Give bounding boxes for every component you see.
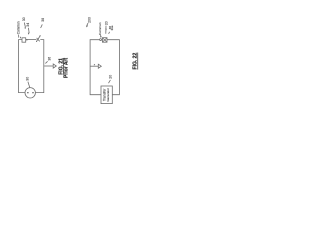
svg-text:20: 20 <box>104 21 108 25</box>
svg-text:Common: Common <box>98 22 102 35</box>
svg-text:30: 30 <box>26 77 30 81</box>
svg-text:30: 30 <box>22 17 26 21</box>
svg-text:Generator: Generator <box>106 88 110 102</box>
svg-text:Common: Common <box>16 21 20 34</box>
svg-text:200: 200 <box>88 17 92 23</box>
svg-text:Prior Art: Prior Art <box>64 58 70 78</box>
svg-text:36: 36 <box>47 57 51 61</box>
svg-text:38: 38 <box>41 18 45 22</box>
svg-text:34: 34 <box>26 23 30 27</box>
svg-text:20: 20 <box>109 75 113 79</box>
svg-text:line: line <box>110 25 114 30</box>
svg-text:FIG. 22: FIG. 22 <box>133 53 139 70</box>
